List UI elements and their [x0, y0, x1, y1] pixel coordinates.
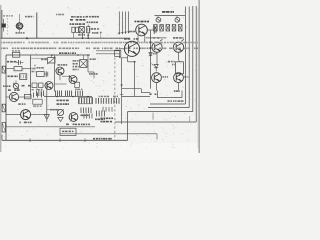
capacitor C5 bank: [154, 25, 182, 31]
wire vertical x150 feed: [149, 30, 151, 89]
label row small a: [3, 85, 11, 87]
diode D6: [149, 53, 157, 56]
trimmer VR1: [13, 81, 19, 90]
connector J3 left: [2, 123, 5, 132]
ground symbol GND2: [58, 118, 63, 122]
label under cluster: [78, 34, 85, 36]
wire supply bus line 4: [115, 6, 196, 122]
arrow on x121.5: [120, 85, 124, 95]
label cluster preamp row0: [71, 16, 86, 18]
wire rail y96.5 left: [44, 96, 92, 98]
wire left border of input section: [1, 10, 3, 38]
label TBA231: [8, 76, 19, 78]
label right of T8: [184, 76, 188, 78]
box fuse F1: [60, 128, 76, 135]
capacitor group CB1: [81, 108, 92, 119]
wire T8 lead down: [178, 82, 180, 90]
transistor T7 output lower: [152, 73, 162, 83]
label cluster preamp row1: [70, 19, 85, 21]
microphone MIC1: [2, 19, 6, 32]
wire vertical x134.6: [134, 62, 136, 97]
resistor R7: [6, 67, 31, 71]
component cluster lower-mid: [95, 111, 105, 121]
transistor T6 output upper: [173, 39, 183, 52]
label Netzteil bold: [162, 11, 174, 13]
wire C6 to node: [88, 55, 94, 78]
wire Q2 emitter down: [137, 36, 139, 43]
label AC117 row: [22, 85, 31, 87]
label Q2 left: [130, 31, 136, 33]
transistor Q3: [55, 67, 65, 80]
transistor Q6 power: [124, 41, 139, 56]
label cluster preamp row2: [70, 23, 86, 25]
label typed caption row 2: [1, 48, 198, 50]
label left col b: [37, 67, 45, 69]
wire bus lines to output stage: [118, 12, 130, 35]
ground symbol GND1: [44, 115, 49, 123]
wire dashed divider: [114, 58, 116, 140]
label AC151 a: [58, 64, 68, 66]
transistor Q5: [69, 76, 77, 84]
wire link to Q9: [47, 109, 61, 111]
node stub left of bus: [100, 32, 102, 38]
wire Q2 output lead right: [147, 29, 153, 31]
resistor R6 small box: [115, 50, 121, 56]
wire link y58: [120, 57, 128, 59]
node cluster rail dots: [82, 37, 90, 39]
label Klangregler: [59, 52, 76, 54]
wire dashed lead: [7, 15, 9, 35]
potentiometer P2: [57, 109, 64, 116]
wire main horizontal rail y38: [1, 37, 131, 39]
resistor R20 emitter: [176, 61, 184, 77]
node junction on input rail: [26, 37, 28, 39]
wire link y58 left: [31, 57, 48, 59]
label Endstufe: [135, 21, 150, 23]
label R20 value: [168, 61, 175, 66]
label inside output box: [168, 100, 184, 102]
resistor group to ground a: [36, 89, 44, 96]
label typed caption row 1: [1, 42, 198, 44]
wire netzteil top rail: [155, 15, 184, 17]
wire vertical x54: [54, 55, 56, 92]
page background: [0, 0, 200, 160]
wire main box top rail: [6, 54, 90, 56]
resistor R0b: [73, 27, 78, 37]
wire link y96.5 to output box: [122, 95, 150, 97]
wire main box left border: [5, 55, 7, 140]
label Q1 value: [16, 32, 25, 34]
resistor R5 on top rail: [12, 50, 20, 57]
arrow on x150: [149, 42, 151, 45]
node ticks on bottom border: [30, 138, 85, 142]
label 12k: [90, 58, 96, 60]
connector J2: [2, 104, 5, 112]
transistor Q1 input: [16, 14, 24, 33]
wire vertical rail x30: [30, 55, 32, 97]
capacitor C4: [46, 71, 48, 77]
wire link y84: [55, 83, 67, 85]
wire T7 lead down: [156, 82, 158, 90]
wire double rail upper: [96, 51, 120, 58]
label above Q7: [8, 89, 20, 91]
resistor R1: [87, 25, 90, 33]
resistor R0a: [72, 27, 75, 32]
label row small dots top-left: [3, 15, 13, 17]
wire Q8 to x46.8: [31, 114, 47, 116]
wire T5 emitter down: [156, 52, 158, 64]
capacitor C1 coupling: [79, 27, 84, 33]
resistor bank RB1: [78, 97, 92, 103]
label TBA800 two lines: [57, 100, 70, 105]
wire supply bus line 1: [150, 7, 185, 105]
resistor R8: [20, 74, 27, 80]
capacitor cluster center-left: [33, 93, 42, 107]
label 022: [18, 103, 25, 105]
wire vertical x46.8: [46, 82, 48, 118]
label right cluster low: [92, 32, 98, 34]
wire supply bus line 3: [128, 6, 193, 112]
node feed junction: [150, 47, 152, 49]
label right of Q9: [81, 115, 89, 117]
wire link y76: [62, 75, 70, 77]
wire rail y127: [6, 126, 96, 128]
capacitor C2: [154, 25, 162, 34]
label NF Eing: [7, 61, 16, 63]
label P1 value: [41, 59, 47, 61]
wire vertical section divider: [36, 13, 38, 39]
resistor R9: [37, 72, 48, 77]
component cluster FL row: [101, 107, 114, 122]
resistor R10: [75, 82, 80, 87]
resistor group to ground b: [56, 91, 62, 97]
wire supply bus line 2: [148, 7, 189, 108]
label under P2: [50, 109, 58, 111]
scan right edge shadow: [198, 0, 200, 153]
label AD155 above Q6: [124, 38, 139, 40]
capacitor C3 input: [16, 60, 23, 65]
wire output stage box: [157, 91, 182, 98]
label right of K1: [87, 22, 99, 24]
diode D4: [175, 16, 180, 23]
wire rail segment under Endstufe: [146, 37, 167, 39]
label right of T7: [163, 76, 169, 78]
transistor Q4: [44, 82, 53, 90]
wire Q6 base lead: [120, 48, 125, 50]
resistor R12: [24, 94, 31, 98]
transistor Q2 driver: [136, 24, 148, 36]
wire J2 to Q8: [6, 114, 21, 116]
wire K1 lead down: [82, 33, 84, 38]
resistor group to ground d: [75, 89, 83, 96]
resistor bank RB2: [96, 96, 119, 104]
label above T5: [153, 37, 159, 39]
label Vorstufe: [56, 14, 64, 16]
diode D3: [156, 16, 161, 23]
label vertical small col: [32, 65, 36, 73]
label AU: [174, 90, 180, 92]
resistor R11 cluster: [32, 83, 44, 90]
transistor T5 output upper: [152, 39, 163, 52]
transistor T8 output lower: [174, 73, 184, 83]
wire vertical x121.5 lower: [121, 58, 123, 124]
node top rail junctions: [51, 54, 89, 56]
wire stepped link y88: [122, 89, 151, 93]
label FLP: [149, 93, 156, 95]
transistor Q7: [6, 92, 31, 101]
scan left edge shadow: [0, 5, 1, 152]
label C6 col: [73, 60, 79, 70]
wire T6 emitter down: [178, 52, 180, 60]
label under Q9: [66, 124, 75, 126]
label AC117K below Q8: [20, 122, 32, 124]
wire netzteil rail to bus: [184, 15, 186, 17]
transistor Q8: [21, 110, 31, 120]
label AC187-188: [86, 16, 99, 18]
label R1 value: [91, 28, 99, 30]
potentiometer P1: [47, 55, 56, 64]
capacitor C6 electrolytic: [80, 55, 87, 67]
label bottom caption: [93, 138, 112, 140]
resistor group to ground c: [66, 91, 72, 97]
label Glimmlampe: [75, 124, 90, 126]
wire R1 lead down: [87, 33, 90, 38]
wire Q6 emitter path: [128, 56, 136, 63]
connector J1 input jack: [2, 66, 6, 73]
label above T6: [173, 37, 184, 39]
label 100n: [89, 73, 98, 75]
wire bottom border: [2, 112, 128, 141]
diode D5: [152, 64, 159, 72]
wire rail y134: [60, 134, 157, 140]
transistor Q9: [69, 113, 78, 122]
wire Q2 collector down: [144, 35, 146, 42]
wire stub below border: [152, 113, 154, 120]
label AC70-B: [25, 16, 34, 18]
